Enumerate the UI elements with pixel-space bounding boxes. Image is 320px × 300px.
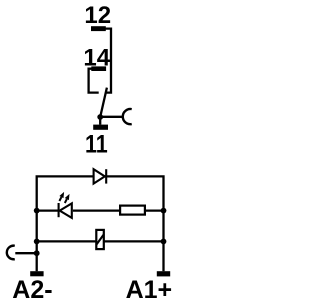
svg-text:11: 11 [85,130,108,158]
svg-text:A2-: A2- [12,276,52,300]
svg-text:A1+: A1+ [126,276,173,300]
svg-text:12: 12 [84,2,111,29]
